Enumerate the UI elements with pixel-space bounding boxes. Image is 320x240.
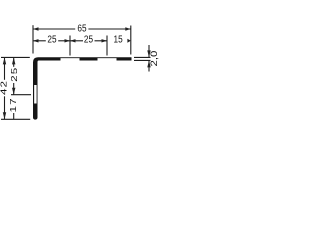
- left tick top: [1, 56, 30, 58]
- angle profile cross-section solid L shape: [33, 57, 132, 119]
- arrow 2,0 down: [147, 50, 150, 57]
- svg-text:25: 25: [10, 67, 19, 82]
- left tick bottom: [1, 118, 30, 120]
- hole gap (vertical leg): [34, 85, 36, 104]
- dim line 42: [4, 57, 6, 79]
- svg-text:17: 17: [10, 97, 19, 112]
- arrow 25b right: [102, 39, 108, 42]
- svg-text:2,0: 2,0: [150, 51, 160, 67]
- dim line 17 lower stub: [13, 113, 15, 119]
- dim line 25a: [33, 40, 46, 42]
- extension line ext3 right: [130, 26, 132, 55]
- arrow 25v top: [12, 57, 15, 64]
- extension line ext0 left: [32, 25, 34, 53]
- hole gap 2 (horizontal leg): [98, 58, 117, 62]
- left tick mid: [11, 94, 31, 96]
- svg-text:15: 15: [114, 34, 123, 45]
- arrow 15 right: [127, 39, 130, 43]
- arrow 25a right: [65, 39, 71, 42]
- dim line 25b: [70, 40, 83, 42]
- hole gap 1 (horizontal leg): [61, 58, 80, 62]
- dim line 65: [33, 28, 75, 30]
- svg-text:25: 25: [84, 34, 93, 45]
- dim line 25 vertical: [13, 57, 15, 66]
- arrow 42 bottom: [3, 112, 6, 119]
- arrow 2,0 up: [147, 60, 150, 67]
- right tick top (2,0): [134, 56, 151, 58]
- dim line 2,0 upper: [148, 45, 150, 57]
- dim line 2,0 lower: [148, 60, 150, 71]
- arrow 25v bottom: [12, 88, 15, 95]
- arrow 65 right: [125, 27, 131, 30]
- right tick bottom (2,0): [134, 59, 151, 61]
- arrow 42 top: [3, 57, 6, 64]
- extension line ext1 hole1: [69, 36, 71, 56]
- arrow 25b left: [70, 39, 76, 42]
- svg-text:42: 42: [0, 80, 9, 95]
- arrow 25a left: [33, 39, 39, 42]
- svg-text:25: 25: [47, 34, 56, 45]
- svg-text:65: 65: [77, 23, 86, 34]
- arrow 65 left: [33, 27, 39, 30]
- extension line ext2 hole2: [106, 36, 108, 56]
